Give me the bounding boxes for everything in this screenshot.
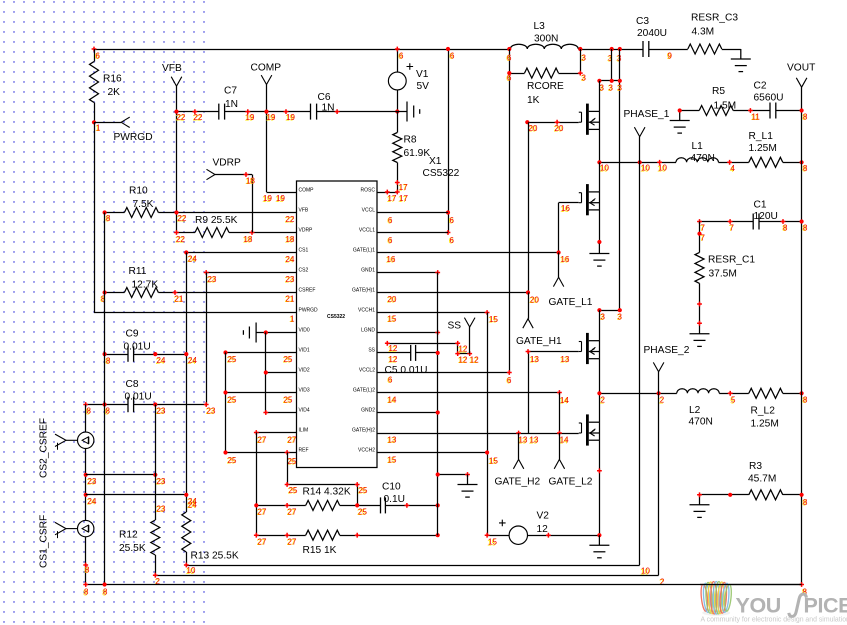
svg-text:8: 8 [783, 223, 788, 232]
wire net14 vertical [559, 393, 561, 434]
svg-text:15: 15 [489, 456, 498, 465]
svg-text:22: 22 [286, 215, 295, 224]
ground after RESR_C3 [731, 49, 751, 72]
svg-text:V2: V2 [537, 510, 550, 521]
svg-text:25: 25 [228, 395, 237, 404]
flag PWRGD [121, 117, 130, 127]
svg-text:SS: SS [368, 347, 375, 353]
junction v24/R13 [184, 493, 188, 497]
svg-text:27: 27 [258, 537, 267, 546]
marker gate wire [525, 120, 529, 124]
wire VCCL2 row [377, 372, 509, 374]
svg-text:13: 13 [519, 436, 528, 445]
svg-text:GND2: GND2 [361, 407, 375, 413]
marker VCCL1 end [446, 230, 451, 235]
flag GATE_H2 [518, 433, 520, 459]
junction REF/v4 [223, 450, 227, 454]
junction V1 minus / C6 row [395, 109, 399, 113]
svg-text:COMP: COMP [251, 62, 282, 73]
wire top +5V rail (net 6) left section [94, 49, 510, 51]
svg-text:L3: L3 [534, 21, 546, 32]
wire VID4 row [266, 412, 297, 414]
svg-text:R9 25.5K: R9 25.5K [195, 215, 238, 226]
net 16 GATE(L)1 wiring [377, 252, 559, 254]
svg-text:C9: C9 [126, 328, 139, 339]
transistor Q1 (high-side phase 1) [579, 104, 600, 135]
wire C3 to RESR_C3 [649, 49, 688, 51]
wire VID3 row (net 25) [226, 392, 297, 394]
inductor L1 [676, 158, 718, 163]
svg-text:2040U: 2040U [637, 28, 667, 39]
svg-text:470N: 470N [691, 153, 715, 164]
wire net13 to Q3 gate [528, 351, 579, 353]
svg-text:6: 6 [450, 51, 455, 60]
svg-text:12: 12 [470, 355, 479, 364]
wire net23 row to v6 [86, 474, 156, 476]
ground at R3 [690, 495, 710, 518]
svg-text:8: 8 [106, 356, 111, 365]
svg-text:REF: REF [299, 447, 309, 453]
resistor R_L2 [749, 388, 783, 398]
junction Q2 source gnd [597, 240, 601, 244]
svg-text:24: 24 [286, 255, 295, 264]
flag COMP [266, 85, 268, 193]
svg-text:COMP: COMP [299, 187, 315, 193]
svg-text:CSREF: CSREF [299, 287, 316, 293]
junction R_L2/VOUT [800, 391, 804, 395]
svg-text:17: 17 [399, 183, 408, 192]
capacitor C5 [410, 345, 412, 361]
svg-text:14: 14 [560, 436, 569, 445]
transistor Q2 (low-side phase 1) [579, 184, 600, 215]
svg-text:6: 6 [96, 51, 101, 60]
wire VCCL1 row [377, 232, 448, 234]
svg-text:3: 3 [600, 83, 605, 92]
junction rail-8 top [103, 210, 107, 214]
svg-text:1.5M: 1.5M [714, 100, 737, 111]
junction net24 row [84, 493, 88, 497]
svg-text:16: 16 [387, 255, 396, 264]
wire R12 bottom [155, 555, 157, 575]
wire rail-8 vertical (x=104.6) [104, 213, 106, 585]
svg-text:120U: 120U [754, 211, 778, 222]
wire net3 y310 link [599, 310, 619, 312]
wire SS row (net 12) with C5 [377, 352, 411, 354]
svg-text:GND1: GND1 [361, 267, 375, 273]
svg-text:VFB: VFB [299, 207, 309, 213]
svg-text:12: 12 [459, 355, 468, 364]
wire net3 y81 link [599, 80, 619, 82]
wire rail-A vertical with current probes [85, 405, 87, 433]
svg-text:L2: L2 [689, 405, 701, 416]
svg-text:PWRGD: PWRGD [114, 132, 153, 143]
svg-text:R11: R11 [129, 266, 147, 277]
svg-text:CS5322: CS5322 [327, 314, 345, 320]
resistor R16 column [94, 49, 96, 62]
wire net10 long vertical [639, 162, 641, 565]
svg-text:6: 6 [507, 73, 512, 82]
junction C10/gnd rail [436, 503, 440, 507]
wire CS2 row (net 23) [206, 272, 296, 274]
junction C1/VOUT [800, 219, 804, 223]
capacitor C1 [752, 214, 754, 230]
junction rail/RCORE right [578, 47, 582, 51]
svg-text:25: 25 [284, 395, 293, 404]
svg-text:12: 12 [537, 524, 549, 535]
wire net8 over logo [700, 584, 802, 586]
svg-text:8: 8 [803, 112, 808, 121]
junction R3/VOUT [800, 493, 804, 497]
resistor RCORE [509, 73, 524, 75]
svg-text:ROSC: ROSC [361, 187, 376, 193]
svg-text:17: 17 [399, 194, 408, 203]
wire to Q3 drain [599, 310, 601, 341]
svg-text:L1: L1 [692, 141, 704, 152]
ground at R5 [670, 111, 690, 134]
wire PWRGD stub [95, 122, 122, 124]
wire COMP row to pin 19 [267, 192, 297, 194]
svg-text:61.9K: 61.9K [404, 148, 431, 159]
svg-text:1: 1 [290, 314, 295, 323]
resistor R11 [124, 288, 158, 298]
junction net23 row [84, 473, 88, 477]
svg-text:8: 8 [101, 294, 106, 303]
svg-text:10: 10 [600, 164, 609, 173]
svg-text:4: 4 [731, 164, 736, 173]
svg-text:GATE_H2: GATE_H2 [495, 476, 541, 487]
svg-text:17: 17 [388, 194, 397, 203]
junction rail8 bottom [103, 582, 107, 586]
svg-text:25: 25 [284, 355, 293, 364]
svg-text:45.7M: 45.7M [748, 473, 776, 484]
svg-text:11: 11 [752, 112, 761, 121]
marker V1 rail [395, 47, 400, 52]
resistor R14 [306, 500, 340, 510]
junction Q1 source/phase1 [597, 160, 601, 164]
svg-text:15: 15 [489, 315, 498, 324]
junction C5/gnd rail [436, 351, 440, 355]
svg-text:PHASE_2: PHASE_2 [644, 345, 690, 356]
junction v6/C8 [153, 402, 157, 406]
wire VDRP stem down [252, 175, 254, 233]
current source CS1 probe [55, 520, 94, 538]
ground mid branch [458, 475, 478, 498]
svg-text:470N: 470N [689, 416, 713, 427]
svg-text:16: 16 [561, 255, 570, 264]
svg-text:R15 1K: R15 1K [303, 545, 337, 556]
junction v5/R14 [254, 503, 258, 507]
svg-text:12: 12 [389, 355, 398, 364]
wire VID2 row [266, 372, 297, 374]
svg-text:10: 10 [658, 164, 667, 173]
svg-text:24: 24 [188, 356, 197, 365]
wire to Q1 drain [599, 81, 601, 112]
svg-text:18: 18 [246, 176, 255, 185]
wire R15 row (net 27) [256, 535, 305, 537]
svg-text:GATE_H1: GATE_H1 [516, 336, 562, 347]
junction VID1 [223, 350, 227, 354]
svg-text:C8: C8 [126, 379, 139, 390]
resistor R10 [124, 208, 158, 218]
capacitor C9 [127, 346, 129, 361]
svg-text:13: 13 [530, 436, 539, 445]
junction v24 top [184, 250, 188, 254]
svg-text:0.01U: 0.01U [124, 341, 151, 352]
wire net23 vertical v2 [206, 273, 208, 405]
svg-text:0.1U: 0.1U [384, 494, 406, 505]
junction rail8/C8 [103, 402, 107, 406]
svg-text:8: 8 [85, 565, 90, 574]
ground below Q2 [589, 244, 609, 267]
svg-text:22: 22 [194, 113, 203, 122]
svg-text:2: 2 [601, 396, 606, 405]
svg-text:14: 14 [560, 396, 569, 405]
junction VID0 [264, 330, 268, 334]
wire net10 bottom row [186, 565, 639, 567]
wire VCCH2 row (net 15) [377, 452, 487, 454]
svg-text:7.5K: 7.5K [133, 199, 154, 210]
svg-text:R3: R3 [749, 461, 762, 472]
node PHASE_2 wire (net 2) [599, 393, 676, 395]
svg-text:C7: C7 [224, 85, 237, 96]
svg-text:VOUT: VOUT [787, 62, 815, 73]
junction REF jog/R14 [355, 503, 359, 507]
svg-text:PWRGD: PWRGD [299, 307, 319, 313]
wire CS1 row (net 24) [186, 252, 296, 254]
svg-text:ILIM: ILIM [299, 427, 309, 433]
svg-text:25: 25 [288, 457, 297, 466]
svg-text:CS2_CSREF: CS2_CSREF [39, 418, 50, 478]
svg-text:7: 7 [730, 223, 735, 232]
svg-text:3: 3 [582, 53, 587, 62]
svg-text:16: 16 [561, 204, 570, 213]
svg-text:23: 23 [157, 504, 166, 513]
wire net8 bottom row [86, 584, 802, 586]
svg-text:5: 5 [731, 396, 736, 405]
wire RESR_C3 to ground [722, 49, 741, 51]
wire net24 vertical v1 [186, 253, 188, 513]
svg-text:3: 3 [608, 54, 613, 63]
marker RCORE right corner [578, 71, 583, 76]
svg-text:0.01U: 0.01U [125, 391, 152, 402]
marker VCCL2 end [507, 370, 512, 375]
wire VID0 row with sideways ground [266, 332, 297, 334]
svg-text:23: 23 [88, 477, 97, 486]
svg-text:14: 14 [388, 395, 397, 404]
junction phase2 [597, 391, 601, 395]
svg-text:C1: C1 [754, 199, 767, 210]
svg-text:19: 19 [286, 113, 295, 122]
svg-text:VCCH1: VCCH1 [358, 307, 375, 313]
svg-text:8: 8 [87, 407, 92, 416]
inductor L3 [510, 44, 578, 49]
junction net20 [526, 290, 530, 294]
svg-text:C3: C3 [636, 16, 649, 27]
svg-text:YOU: YOU [736, 594, 781, 618]
wire VCCL row [377, 212, 448, 214]
wire C9 row (nets 8/24) [105, 354, 128, 356]
svg-text:VCCH2: VCCH2 [358, 447, 375, 453]
svg-text:PICE: PICE [804, 594, 847, 618]
ground below RESR_C1 [690, 334, 710, 347]
capacitor C6 [310, 104, 312, 120]
svg-text:25: 25 [359, 486, 368, 495]
svg-text:25: 25 [358, 507, 367, 516]
svg-text:24: 24 [88, 497, 97, 506]
svg-text:VCCL1: VCCL1 [359, 227, 375, 233]
svg-text:23: 23 [207, 406, 216, 415]
ground below V2 [589, 535, 609, 558]
marker R8 lead [395, 180, 400, 185]
svg-text:GATE(L)2: GATE(L)2 [353, 387, 375, 393]
svg-text:8: 8 [106, 407, 111, 416]
svg-text:13: 13 [530, 355, 539, 364]
ground at VID0 [243, 323, 265, 343]
svg-text:GATE(L)1: GATE(L)1 [353, 247, 375, 253]
junction phase2 stem [657, 391, 661, 395]
wire R8 to ROSC [397, 163, 399, 193]
svg-text:8: 8 [803, 164, 808, 173]
svg-text:27: 27 [288, 537, 297, 546]
voltage source V1 5V [397, 49, 399, 72]
svg-text:VID0: VID0 [299, 327, 310, 333]
flag VOUT [801, 87, 803, 584]
wire phase1 to Q2 drain [599, 162, 601, 192]
svg-text:CS5322: CS5322 [423, 168, 460, 179]
marker rail corner [92, 47, 97, 52]
svg-text:22: 22 [177, 113, 186, 122]
wire net6 vertical to VCCL/VCCL1 [448, 49, 450, 233]
wire V1 to R8 [397, 112, 399, 133]
wire GATE(H)2 row and gate lead (nets 13/14) [377, 433, 579, 435]
svg-text:VCCL: VCCL [362, 207, 376, 213]
svg-text:20: 20 [529, 124, 538, 133]
svg-text:8: 8 [103, 588, 108, 597]
svg-text:7: 7 [701, 233, 706, 242]
junction VFB/C7 row [174, 110, 178, 114]
junction COMP stem [264, 110, 268, 114]
svg-text:1.25M: 1.25M [749, 143, 777, 154]
wire VFB row (net 22) with R10 [105, 212, 125, 214]
net 20 GATE(H)1 wiring [377, 292, 528, 294]
svg-text:RESR_C1: RESR_C1 [708, 254, 755, 265]
wire net15 vertical [487, 313, 489, 536]
wire top rail to C3 [578, 49, 643, 51]
capacitor C8 [127, 397, 129, 412]
svg-text:8: 8 [84, 588, 89, 597]
svg-text:PHASE_1: PHASE_1 [624, 109, 670, 120]
svg-text:VDRP: VDRP [299, 227, 314, 233]
svg-text:27: 27 [288, 507, 297, 516]
wire net6 vertical x509 to VCCL2 [509, 49, 511, 373]
svg-text:X1: X1 [429, 156, 442, 167]
svg-text:C2: C2 [754, 80, 767, 91]
svg-text:22: 22 [176, 235, 185, 244]
svg-text:C10: C10 [382, 481, 401, 492]
svg-text:13: 13 [388, 435, 397, 444]
flag GATE_L1 [558, 253, 560, 278]
current source CS2 probe [55, 432, 94, 450]
svg-text:R_L2: R_L2 [751, 405, 776, 416]
wire PWRGD row to IC pin 1 [94, 312, 297, 314]
wire C8 row (nets 8/23) [86, 404, 128, 406]
svg-text:6: 6 [507, 53, 512, 62]
marker ROSC corner [395, 190, 400, 195]
svg-text:25: 25 [289, 486, 298, 495]
wire net24 row to R13 column [86, 494, 187, 496]
logo YouSpice thread ball [700, 582, 732, 616]
junction gnd branch [436, 472, 440, 476]
svg-text:RESR_C3: RESR_C3 [691, 12, 738, 23]
svg-text:R12: R12 [119, 529, 138, 540]
wire LGND row [377, 332, 438, 334]
resistor R5 [699, 106, 733, 116]
resistor R8 [393, 133, 402, 163]
svg-text:1.25M: 1.25M [751, 418, 779, 429]
svg-text:R8: R8 [404, 134, 417, 145]
wire Q2 source to ground [599, 210, 601, 244]
svg-text:7: 7 [701, 223, 706, 232]
svg-text:19: 19 [263, 194, 272, 203]
junction VCCL [446, 210, 450, 214]
junction V2/Q4 source/gnd [597, 533, 601, 537]
wire C7/C6 row (nets 22/19) [177, 111, 219, 113]
svg-text:6560U: 6560U [754, 92, 784, 103]
transistor Q4 (low-side phase 2) [579, 414, 600, 445]
svg-text:3: 3 [618, 83, 623, 92]
wire net20 to Q1 gate [528, 122, 579, 124]
IC pin name labels [299, 187, 376, 453]
resistor RESR_C1 [695, 252, 704, 283]
svg-text:25.5K: 25.5K [119, 543, 146, 554]
resistor R_L1 [749, 157, 783, 167]
svg-text:RCORE: RCORE [527, 81, 564, 92]
svg-text:8: 8 [803, 223, 808, 232]
svg-text:C5 0.01U: C5 0.01U [385, 365, 428, 376]
svg-text:24: 24 [188, 500, 197, 509]
svg-text:25: 25 [228, 355, 237, 364]
wire net3 drop x611 [611, 49, 613, 81]
svg-text:VID3: VID3 [299, 387, 310, 393]
svg-text:GATE_L1: GATE_L1 [549, 297, 593, 308]
svg-text:27: 27 [258, 435, 267, 444]
svg-text:R14 4.32K: R14 4.32K [303, 486, 351, 497]
wire GATE(L)2 row (net 14) [377, 392, 559, 394]
svg-text:CS1: CS1 [299, 247, 309, 253]
flag SS [469, 327, 471, 354]
wire net3 long vertical x620 [619, 49, 621, 310]
svg-text:6: 6 [507, 376, 512, 385]
svg-text:R16: R16 [103, 73, 122, 84]
capacitor C7 [218, 104, 220, 120]
flag PHASE_2 [658, 372, 660, 394]
svg-text:13: 13 [561, 355, 570, 364]
svg-text:CS1_CSRF: CS1_CSRF [39, 515, 50, 568]
wire net2 vertical [658, 393, 660, 575]
op-amp U1 CS5322 controller IC body [297, 181, 378, 468]
junction GND2/gnd rail [436, 410, 440, 414]
svg-text:23: 23 [286, 275, 295, 284]
svg-text:C6: C6 [318, 92, 331, 103]
junction phase1 flag stem [638, 160, 642, 164]
svg-text:25: 25 [228, 456, 237, 465]
junction rail/L3 left [507, 47, 511, 51]
svg-text:15: 15 [388, 314, 397, 323]
svg-text:10: 10 [641, 164, 650, 173]
junction VID2 [264, 370, 268, 374]
wire VCCH1 row (net 15) [377, 312, 487, 314]
resistor R15 [306, 530, 340, 540]
